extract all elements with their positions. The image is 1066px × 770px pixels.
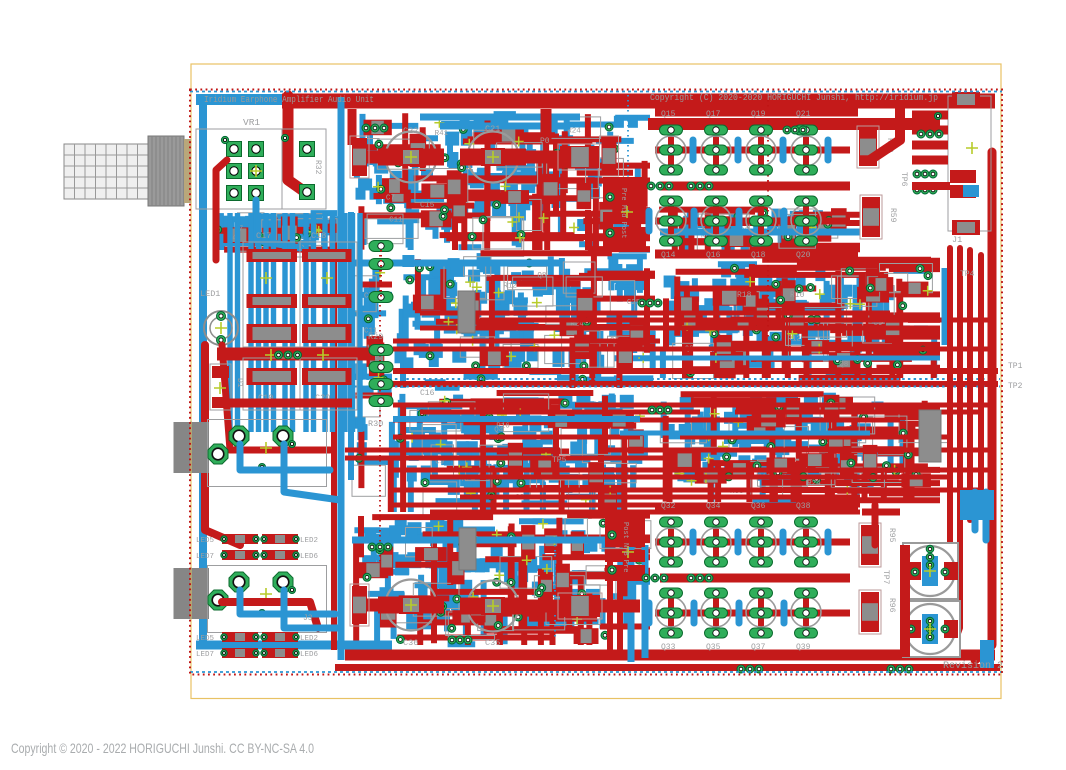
wire xyxy=(460,495,860,500)
svg-text:C7: C7 xyxy=(386,194,395,202)
wire xyxy=(900,545,910,657)
capacitor C36 xyxy=(378,580,444,649)
wire xyxy=(338,97,345,660)
svg-text:Q17: Q17 xyxy=(706,110,721,119)
wire xyxy=(240,590,335,614)
wire xyxy=(541,109,552,140)
svg-text:TP7: TP7 xyxy=(881,570,890,585)
transistor U1 xyxy=(458,291,475,333)
svg-text:TP6: TP6 xyxy=(899,172,908,187)
components xyxy=(396,394,645,518)
svg-text:Q36: Q36 xyxy=(751,502,766,511)
node center dotted lines xyxy=(355,378,1000,380)
wire xyxy=(686,208,823,250)
wire xyxy=(284,590,340,628)
via xyxy=(913,170,921,178)
resistor R43 xyxy=(560,146,600,168)
wire xyxy=(393,403,530,408)
via xyxy=(281,134,288,141)
svg-text:LED6: LED6 xyxy=(300,553,319,561)
svg-text:Q16: Q16 xyxy=(706,251,721,260)
svg-text:LED6: LED6 xyxy=(300,651,319,659)
wire xyxy=(345,650,995,661)
svg-text:J1: J1 xyxy=(952,235,962,245)
wire xyxy=(395,253,656,388)
svg-text:C18: C18 xyxy=(311,231,326,241)
wire xyxy=(222,345,330,450)
wire xyxy=(655,250,858,259)
wire xyxy=(430,510,860,515)
resistor R60 xyxy=(859,128,877,166)
wire xyxy=(870,101,900,160)
transistor U3 xyxy=(919,410,941,462)
svg-text:R96: R96 xyxy=(887,598,896,613)
LED row LED6 LED8 LED9 LED7 xyxy=(196,632,319,659)
via xyxy=(448,636,456,644)
wire xyxy=(520,151,560,164)
wire xyxy=(393,339,660,344)
wire xyxy=(393,503,860,508)
wire xyxy=(663,264,934,378)
wire xyxy=(942,268,949,345)
svg-text:R18: R18 xyxy=(737,291,752,300)
via xyxy=(368,543,376,551)
svg-text:R59: R59 xyxy=(888,208,897,223)
wire xyxy=(975,152,992,660)
wire xyxy=(607,560,613,650)
wire xyxy=(216,213,345,250)
components xyxy=(356,117,641,257)
wire xyxy=(680,435,950,440)
wire xyxy=(284,444,340,500)
wire xyxy=(600,448,990,453)
resistor R75 xyxy=(352,586,367,624)
svg-text:Q15: Q15 xyxy=(661,110,676,119)
components xyxy=(406,257,648,384)
wire xyxy=(196,641,392,650)
wire xyxy=(418,253,655,388)
wire xyxy=(735,410,980,415)
svg-text:Q8: Q8 xyxy=(839,361,848,369)
wire xyxy=(355,114,650,250)
wire xyxy=(356,516,650,645)
wire xyxy=(950,248,960,655)
svg-text:VR1: VR1 xyxy=(243,117,260,128)
svg-text:P0: P0 xyxy=(540,137,550,146)
svg-text:TP5: TP5 xyxy=(552,456,567,465)
via xyxy=(647,182,655,190)
wire xyxy=(666,394,940,502)
via xyxy=(783,126,791,134)
via xyxy=(917,130,925,138)
wire xyxy=(256,200,300,248)
resistor R33 xyxy=(352,138,367,176)
wire xyxy=(872,505,879,545)
capacitor C35 xyxy=(460,581,526,649)
resistor R69 xyxy=(560,595,600,617)
wire xyxy=(642,545,649,658)
wire xyxy=(393,435,640,440)
jack J2 xyxy=(208,420,327,487)
svg-text:LED2: LED2 xyxy=(300,635,318,643)
wire xyxy=(352,260,392,475)
svg-text:LED1: LED1 xyxy=(200,289,220,299)
wire xyxy=(217,348,375,361)
wire xyxy=(912,182,950,190)
wire xyxy=(403,393,636,512)
wire xyxy=(229,399,352,408)
svg-text:R12: R12 xyxy=(787,335,801,343)
wire xyxy=(666,260,940,378)
wire xyxy=(420,311,890,316)
wire xyxy=(331,242,337,650)
svg-text:TP2: TP2 xyxy=(1008,382,1023,391)
wire xyxy=(205,345,240,545)
pads Post NFB Pre bottom xyxy=(605,517,645,581)
via xyxy=(362,124,370,132)
wire xyxy=(520,600,640,613)
svg-text:Revision 2: Revision 2 xyxy=(943,660,1003,672)
wire xyxy=(196,94,300,105)
svg-text:Q8: Q8 xyxy=(537,272,546,280)
LED row LED2 LED4 LED5 LED3 xyxy=(196,534,319,561)
svg-text:Q34: Q34 xyxy=(706,502,721,511)
wire xyxy=(393,381,998,387)
svg-text:R41: R41 xyxy=(435,130,449,138)
wire xyxy=(628,520,635,662)
svg-text:R10: R10 xyxy=(790,291,805,300)
jack J2 connector xyxy=(174,422,210,473)
wire xyxy=(393,368,998,374)
svg-text:Post NFB Pre: Post NFB Pre xyxy=(621,522,629,572)
components xyxy=(673,264,933,379)
components xyxy=(352,268,388,497)
connector P1 shaft xyxy=(64,136,191,206)
svg-text:D1: D1 xyxy=(235,378,244,388)
wire xyxy=(659,210,860,250)
svg-text:C17: C17 xyxy=(256,231,271,241)
wire xyxy=(967,250,973,520)
svg-text:Q19: Q19 xyxy=(751,110,766,119)
capacitor C22 xyxy=(378,126,444,183)
connector J1 xyxy=(912,92,991,245)
wire xyxy=(393,488,980,493)
via xyxy=(887,665,895,673)
wire xyxy=(348,212,354,480)
wire xyxy=(199,95,207,642)
wire xyxy=(430,475,950,480)
svg-text:Q18: Q18 xyxy=(751,251,766,260)
via xyxy=(687,574,695,582)
components xyxy=(660,395,950,499)
wire xyxy=(393,468,990,473)
svg-text:Q21: Q21 xyxy=(796,110,811,119)
wire xyxy=(420,410,700,415)
diode D1 xyxy=(210,364,244,410)
svg-text:C21: C21 xyxy=(485,124,500,134)
via xyxy=(642,574,650,582)
wire xyxy=(393,347,995,352)
svg-text:LED7: LED7 xyxy=(196,651,214,659)
resistor R31 xyxy=(602,138,617,174)
components xyxy=(214,213,338,259)
wire xyxy=(420,114,580,121)
wire xyxy=(282,94,995,109)
svg-text:R30: R30 xyxy=(368,419,383,429)
svg-text:C11: C11 xyxy=(389,217,403,225)
wire xyxy=(393,416,640,422)
svg-text:Q14: Q14 xyxy=(661,251,676,260)
svg-text:C36: C36 xyxy=(403,638,418,648)
resistor R59 xyxy=(862,197,880,237)
wire xyxy=(214,213,338,250)
via xyxy=(913,186,921,194)
wire xyxy=(620,431,870,436)
wire xyxy=(575,403,990,408)
svg-text:LED7: LED7 xyxy=(196,553,214,561)
jack J3 xyxy=(208,566,327,633)
wire blue verticals xyxy=(230,213,360,432)
capacitor C1 xyxy=(903,543,958,599)
wire xyxy=(660,229,860,236)
svg-text:Copyright © 2020 - 2022 HORIGU: Copyright © 2020 - 2022 HORIGUCHI Junshi… xyxy=(11,740,314,756)
capacitor C21 xyxy=(460,124,526,183)
wire xyxy=(335,664,1000,671)
labels Q15 Q17 Q19 Q21 xyxy=(661,110,811,260)
svg-text:R16: R16 xyxy=(496,422,510,430)
components xyxy=(697,208,846,251)
via xyxy=(275,351,283,359)
board outline xyxy=(190,90,1002,675)
svg-text:R24: R24 xyxy=(807,480,821,488)
wire xyxy=(354,516,650,645)
via xyxy=(737,665,745,673)
wire xyxy=(978,255,984,500)
wire xyxy=(661,393,940,502)
wire xyxy=(648,118,940,130)
wire xyxy=(480,318,990,323)
wire xyxy=(640,356,940,361)
svg-text:C35: C35 xyxy=(485,638,500,648)
wire xyxy=(655,108,858,117)
svg-text:R32: R32 xyxy=(313,160,322,175)
wire xyxy=(355,113,650,250)
wire xyxy=(240,444,330,470)
svg-text:Q32: Q32 xyxy=(661,502,676,511)
wire xyxy=(420,326,940,331)
wire xyxy=(222,602,318,628)
svg-text:LED5: LED5 xyxy=(196,537,215,545)
svg-text:Q37: Q37 xyxy=(751,643,766,652)
wire xyxy=(355,261,392,513)
svg-text:Q33: Q33 xyxy=(661,643,676,652)
via xyxy=(687,182,695,190)
capacitor bank C17 C18 C19 C20 xyxy=(243,231,357,410)
wire xyxy=(440,123,570,130)
svg-text:TP1: TP1 xyxy=(1008,362,1023,371)
wire xyxy=(394,394,645,513)
wire blue right xyxy=(960,490,994,668)
wire xyxy=(216,160,227,260)
svg-text:Iridium Earphone Amplifier Aud: Iridium Earphone Amplifier Audio Unit xyxy=(204,94,374,105)
via xyxy=(648,406,656,414)
svg-text:Q39: Q39 xyxy=(796,643,811,652)
wire xyxy=(348,109,357,145)
node dotted courtyard xyxy=(379,240,381,565)
capacitor C2 xyxy=(903,601,960,657)
wire xyxy=(288,96,305,192)
svg-text:C15: C15 xyxy=(420,201,435,210)
svg-text:R29: R29 xyxy=(368,332,383,342)
transistor array Q32 Q34 Q36 Q38 xyxy=(649,517,850,638)
wire xyxy=(352,537,640,544)
svg-text:C16: C16 xyxy=(420,389,435,398)
wire xyxy=(345,456,665,461)
svg-text:TP4: TP4 xyxy=(960,270,975,279)
transistor U2 xyxy=(459,528,476,570)
resistor R96 xyxy=(861,592,879,632)
via xyxy=(221,136,228,143)
pads Pre Mid Post top xyxy=(603,177,646,247)
svg-text:C22: C22 xyxy=(403,126,418,136)
wire xyxy=(393,418,900,423)
transistor array Q15 Q17 Q19 Q21 xyxy=(649,125,850,246)
svg-text:Copyright (C) 2020-2020 HORIGU: Copyright (C) 2020-2020 HORIGUCHI Junshi… xyxy=(650,92,938,103)
svg-text:J3: J3 xyxy=(303,614,313,623)
resistor R95 xyxy=(861,525,879,565)
labels Q32 Q34 Q36 Q38 xyxy=(661,502,811,652)
wire xyxy=(655,504,858,513)
svg-text:R95: R95 xyxy=(887,528,896,543)
wire xyxy=(940,248,950,652)
connector J4 pads xyxy=(369,241,393,407)
svg-text:Q38: Q38 xyxy=(796,502,811,511)
svg-text:LED5: LED5 xyxy=(196,635,215,643)
svg-text:Q20: Q20 xyxy=(796,251,811,260)
LED LED1 xyxy=(200,289,238,345)
wire xyxy=(352,260,560,267)
svg-text:R12: R12 xyxy=(503,283,517,291)
wire xyxy=(862,509,900,516)
svg-text:Pre Mid Post: Pre Mid Post xyxy=(619,188,627,238)
svg-text:LED2: LED2 xyxy=(300,537,318,545)
wire xyxy=(617,575,623,655)
wire xyxy=(345,448,560,453)
jack J3 connector xyxy=(174,568,210,619)
wire xyxy=(352,151,378,164)
components xyxy=(358,519,651,645)
page frame xyxy=(191,64,1001,699)
svg-text:Q35: Q35 xyxy=(706,643,721,652)
potentiometer VR1 xyxy=(196,117,326,209)
page frame over connectors xyxy=(190,421,192,473)
wire xyxy=(380,250,382,300)
wire xyxy=(352,599,378,612)
via xyxy=(638,299,646,307)
